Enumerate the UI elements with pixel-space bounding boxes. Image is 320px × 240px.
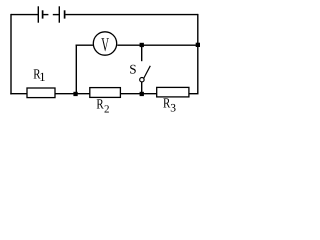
wire left vertical [10, 14, 12, 95]
resistor R1 [27, 88, 55, 98]
switch S pivot circle [140, 78, 144, 82]
resistor R3 [157, 87, 189, 97]
wire right vertical [197, 14, 199, 94]
wire voltmeter branch vertical [75, 45, 77, 94]
wire voltmeter to right vertical [117, 44, 198, 46]
wire bottom left [10, 93, 27, 95]
wire bottom between R2 and R3 [120, 93, 157, 95]
node junction switch bottom [140, 92, 144, 96]
switch S bottom lead [141, 82, 143, 94]
svg-text:3: 3 [170, 102, 176, 114]
svg-text:1: 1 [39, 70, 45, 84]
wire bottom right [189, 93, 199, 95]
wire bottom between R1 and R2 [55, 93, 90, 95]
svg-text:S: S [129, 62, 136, 77]
svg-text:2: 2 [104, 103, 110, 115]
node junction voltmeter branch bottom [73, 92, 77, 96]
wire voltmeter branch left horizontal [76, 44, 93, 46]
node junction at right wire [196, 43, 200, 47]
switch S blade [144, 66, 151, 79]
node junction at switch top [140, 43, 144, 47]
switch S top lead [141, 45, 143, 61]
wire top-left horizontal [11, 14, 38, 16]
svg-text:V: V [101, 35, 109, 56]
resistor R2 [90, 88, 121, 98]
voltmeter V [93, 32, 116, 55]
battery cell B1 [38, 6, 48, 22]
battery cell B2 [53, 6, 65, 22]
wire top horizontal to right [65, 14, 197, 16]
